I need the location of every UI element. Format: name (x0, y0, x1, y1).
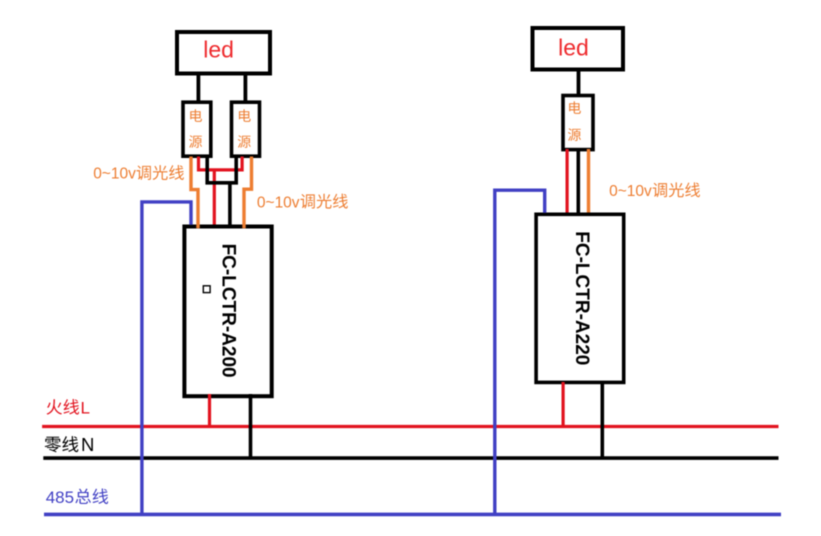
wire led to PSU3 (black) (577, 70, 581, 96)
neutral bus N (black horizontal) (43, 456, 778, 460)
led panel box (right) (533, 28, 624, 70)
svg-text:0~10v: 0~10v (93, 166, 136, 183)
svg-text:FC-LCTR-A200: FC-LCTR-A200 (217, 244, 238, 378)
label live line L (red) (47, 398, 90, 417)
label 0~10v dimming line #3 (orange) (609, 182, 700, 200)
wire live red drop to controller U1 (213, 170, 216, 226)
wire 0-10v dimming PSU3 (orange) (587, 149, 590, 215)
wire neutral black PSU1-PSU2 tie bar (207, 157, 236, 183)
label 0~10v dimming line #1 (orange) (93, 165, 184, 183)
wire neutral black drop to controller U1 (228, 183, 232, 226)
wire U1 to neutral bus N (black) (249, 394, 253, 458)
wire live red PSU1-PSU2 tie bar (199, 157, 243, 170)
controller U1 FC-LCTR-A200 box (184, 227, 271, 397)
wire led to PSU1 (black) (196, 73, 200, 102)
power supply PSU3 box (563, 96, 593, 150)
small square marker in U1 (203, 286, 210, 293)
svg-text:led: led (203, 37, 234, 63)
svg-text:FC-LCTR-A220: FC-LCTR-A220 (571, 231, 592, 365)
wire 0-10v dimming PSU2 (orange, jog) (244, 157, 252, 229)
svg-text:485: 485 (46, 488, 74, 507)
label 0~10v dimming line #2 (orange) (257, 194, 348, 212)
power supply PSU1 box (183, 102, 211, 156)
power supply PSU2 box (232, 102, 260, 156)
svg-text:0~10v: 0~10v (609, 183, 652, 200)
controller U2 FC-LCTR-A220 box (536, 214, 624, 382)
wire live red PSU3 to controller U2 (565, 149, 568, 215)
led panel box (left) (177, 32, 270, 74)
svg-text:0~10v: 0~10v (257, 194, 300, 211)
live bus L (red horizontal) (42, 425, 778, 428)
485 bus (blue horizontal) (44, 513, 781, 517)
svg-text:L: L (81, 398, 90, 417)
svg-text:led: led (558, 35, 589, 61)
wire 0-10v dimming PSU1 (orange, jog) (191, 157, 198, 229)
wire neutral black PSU3 to controller U2 (576, 149, 580, 215)
wire U1 to live bus L (red) (208, 394, 211, 427)
wire 485 bus branch to controller U2 (blue) (495, 190, 545, 516)
wire 485 bus branch to controller U1 (blue) (142, 202, 191, 516)
wire U2 to live bus L (red) (561, 382, 564, 427)
label 485 bus (blue) (46, 488, 108, 507)
wire led to PSU2 (black) (243, 73, 247, 102)
label neutral line N (black) (45, 434, 95, 455)
wire U2 to neutral bus N (black) (600, 382, 604, 458)
svg-text:N: N (81, 434, 94, 455)
